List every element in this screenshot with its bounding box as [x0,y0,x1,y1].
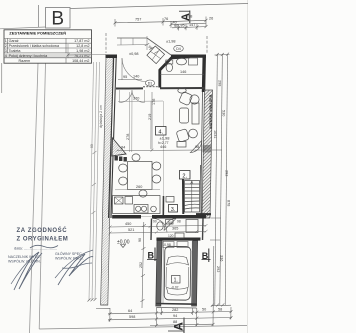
svg-text:Z ORYGINAŁEM: Z ORYGINAŁEM [17,237,69,243]
svg-text:1: 1 [5,39,7,43]
svg-text:-0,02: -0,02 [171,286,179,290]
svg-text:±1,98: ±1,98 [166,40,175,44]
svg-text:Pokój dzienny i kuchnia: Pokój dzienny i kuchnia [9,54,48,58]
svg-text:50: 50 [202,308,206,312]
svg-text:521: 521 [128,228,134,232]
svg-text:2.: 2. [182,173,187,179]
svg-text:84: 84 [121,146,125,150]
svg-text:292: 292 [216,266,220,272]
svg-text:90: 90 [168,221,172,225]
svg-text:219: 219 [148,114,152,120]
svg-text:530: 530 [222,110,226,116]
svg-text:292: 292 [225,170,229,176]
svg-text:176: 176 [152,99,156,105]
svg-text:±0,98: ±0,98 [129,52,138,56]
svg-text:298: 298 [218,80,222,86]
svg-text:94: 94 [173,314,177,318]
svg-text:88: 88 [173,320,177,324]
svg-text:260: 260 [136,185,142,189]
svg-text:878: 878 [227,200,231,206]
svg-text:1.: 1. [174,278,178,284]
svg-text:598: 598 [129,315,135,319]
svg-text:±1,98: ±1,98 [160,136,171,141]
svg-text:90: 90 [138,238,142,242]
svg-text:ZA ZGODNOŚĆ: ZA ZGODNOŚĆ [17,226,68,234]
svg-text:336: 336 [220,255,224,261]
svg-text:WSPÓŁW. PROJ.: WSPÓŁW. PROJ. [55,256,84,261]
svg-text:ZESTAWIENIE POMIESZCZEŃ: ZESTAWIENIE POMIESZCZEŃ [9,31,66,36]
svg-text:252: 252 [139,262,143,268]
svg-text:757: 757 [135,18,141,22]
svg-text:90: 90 [153,220,157,224]
svg-text:BUDYNEK SĄSIEDNI: BUDYNEK SĄSIEDNI [208,95,212,129]
svg-text:2: 2 [5,44,7,48]
svg-text:95: 95 [123,75,127,79]
svg-text:Razem: Razem [19,59,31,63]
svg-text:64: 64 [128,309,132,313]
svg-text:898: 898 [186,15,192,19]
svg-text:282: 282 [172,308,178,312]
svg-text:D1: D1 [148,82,153,86]
svg-text:Garaż: Garaż [9,39,19,43]
svg-text:85: 85 [181,24,185,28]
svg-text:446: 446 [160,145,166,149]
svg-text:90: 90 [174,24,178,28]
svg-text:Toaleta: Toaleta [9,49,22,53]
svg-text:108,44 m2: 108,44 m2 [72,59,89,63]
svg-text:3: 3 [5,49,7,53]
svg-text:4: 4 [5,54,7,58]
svg-text:GŁÓWNY SPEC.: GŁÓWNY SPEC. [55,251,83,256]
svg-text:58: 58 [218,307,222,311]
svg-text:147: 147 [189,23,195,27]
svg-text:-0,98: -0,98 [163,243,171,247]
svg-text:140: 140 [133,75,139,79]
svg-text:12,8 m2: 12,8 m2 [76,44,89,48]
svg-text:4.: 4. [158,129,163,135]
svg-text:365: 365 [172,227,178,231]
svg-text:B: B [51,9,64,30]
svg-text:D4: D4 [176,47,181,51]
svg-text:17,87 m2: 17,87 m2 [74,39,89,43]
svg-text:146: 146 [180,70,186,74]
svg-text:B: B [148,251,155,261]
svg-text:Przedsionek i klatka schodowa: Przedsionek i klatka schodowa [9,44,60,48]
svg-text:90: 90 [90,144,94,148]
svg-text:278: 278 [126,134,130,140]
svg-text:3.: 3. [171,207,175,213]
svg-text:450: 450 [125,222,131,226]
svg-text:76: 76 [164,17,168,21]
svg-text:370: 370 [133,97,139,101]
svg-text:dylatacja 2 cm: dylatacja 2 cm [99,105,103,128]
svg-text:120: 120 [168,234,174,238]
svg-text:1,98 m2: 1,98 m2 [76,49,89,53]
svg-text:98: 98 [195,145,199,149]
svg-text:26: 26 [209,17,213,21]
svg-text:98: 98 [177,220,181,224]
svg-text:76,21 m2: 76,21 m2 [74,54,89,58]
